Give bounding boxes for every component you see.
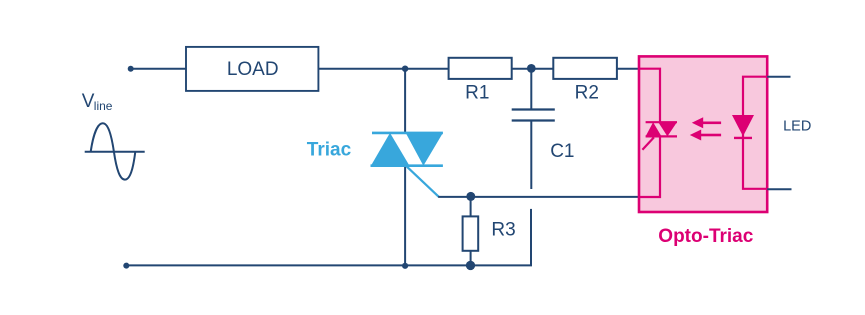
- capacitor C1: [512, 110, 555, 121]
- svg-text:LOAD: LOAD: [227, 59, 279, 80]
- wire triac anode (top): [404, 69, 406, 133]
- wire triac cathode (bottom): [404, 166, 406, 266]
- node junction gate/R3: [466, 192, 475, 201]
- wire C1 top lead: [530, 69, 532, 109]
- wire bottom rail: [126, 264, 532, 266]
- wire LED bottom stub: [767, 188, 791, 190]
- svg-text:Opto-Triac: Opto-Triac: [658, 226, 753, 247]
- svg-text:C1: C1: [550, 141, 574, 162]
- resistor R3: [463, 216, 479, 250]
- wire R3 bottom lead: [470, 251, 472, 266]
- load block LOAD: [186, 47, 318, 91]
- svg-text:R2: R2: [575, 82, 599, 103]
- wire R3 top lead: [470, 197, 472, 217]
- AC source sine symbol: [85, 123, 145, 179]
- wire gate rail: [438, 196, 639, 198]
- node junction R3/bottom rail: [466, 261, 475, 270]
- LED diode symbol: [732, 115, 754, 138]
- svg-text:R1: R1: [465, 82, 489, 103]
- wire top-left to LOAD: [131, 68, 186, 70]
- wire opto output loop (left, magenta): [639, 69, 660, 197]
- wire R1 to R2: [512, 68, 554, 70]
- wire C1 bottom lead (crosses gate line with gap): [530, 122, 532, 190]
- resistor R2: [553, 58, 617, 79]
- node junction triac/bottom rail: [402, 263, 408, 269]
- node junction R1/R2/C1: [527, 64, 536, 73]
- opto internal triac symbol: [642, 122, 677, 150]
- triac symbol (cyan): [371, 133, 443, 197]
- node top-left terminal: [128, 66, 134, 72]
- resistor R1: [449, 58, 512, 79]
- node bottom-left terminal: [123, 263, 129, 269]
- light arrows: [690, 117, 721, 140]
- opto-triac package box: [639, 56, 767, 212]
- node junction LOAD/Triac: [402, 66, 408, 72]
- wire R2 to opto box: [617, 68, 639, 70]
- wire LED loop (right, magenta): [743, 77, 767, 189]
- svg-text:LED: LED: [783, 119, 811, 135]
- svg-text:Triac: Triac: [307, 139, 352, 160]
- wire LOAD to R1: [318, 68, 448, 70]
- label Vline: [82, 91, 113, 113]
- svg-text:line: line: [94, 99, 113, 113]
- svg-text:R3: R3: [491, 220, 515, 241]
- wire LED top stub: [767, 76, 790, 78]
